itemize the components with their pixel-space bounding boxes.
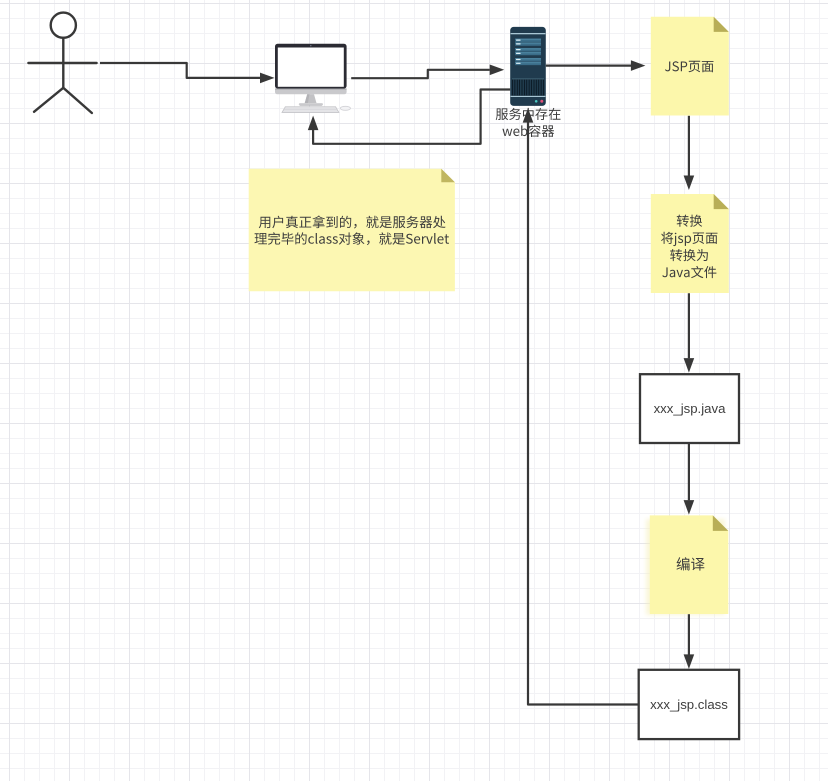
wire monitor to server (with arrowhead)	[351, 65, 504, 79]
wire actor to monitor (with arrowhead)	[100, 63, 275, 83]
note JSP页面	[651, 17, 729, 116]
monitor (iMac computer)	[275, 44, 351, 113]
box xxx_jsp.java	[640, 374, 739, 443]
note 用户真正拿到的，就是服务器处理完毕的class对象，就是Servlet	[249, 169, 455, 292]
box xxx_jsp.class	[639, 670, 739, 739]
note 编译	[646, 515, 728, 615]
wire 转换 note to xxx_jsp.java box (with arrowhead)	[684, 293, 695, 372]
note 转换/将jsp页面/转换为/Java文件	[651, 194, 729, 293]
wire server back to monitor (with arrowhead)	[308, 90, 510, 144]
wire server to JSP note (with arrowhead)	[546, 60, 646, 71]
svg-text:xxx_jsp.java: xxx_jsp.java	[654, 401, 726, 416]
wire xxx_jsp.class box back to server (with arrowhead)	[523, 108, 639, 704]
label 服务中存在 web容器	[496, 108, 561, 137]
server tower	[510, 27, 546, 106]
wire xxx_jsp.java box to 编译 note (with arrowhead)	[684, 444, 695, 515]
actor (stick figure user)	[28, 13, 96, 113]
svg-text:xxx_jsp.class: xxx_jsp.class	[650, 697, 728, 712]
wire 编译 note to xxx_jsp.class box (with arrowhead)	[684, 614, 695, 669]
wire JSP note to 转换 note (with arrowhead)	[684, 116, 695, 190]
